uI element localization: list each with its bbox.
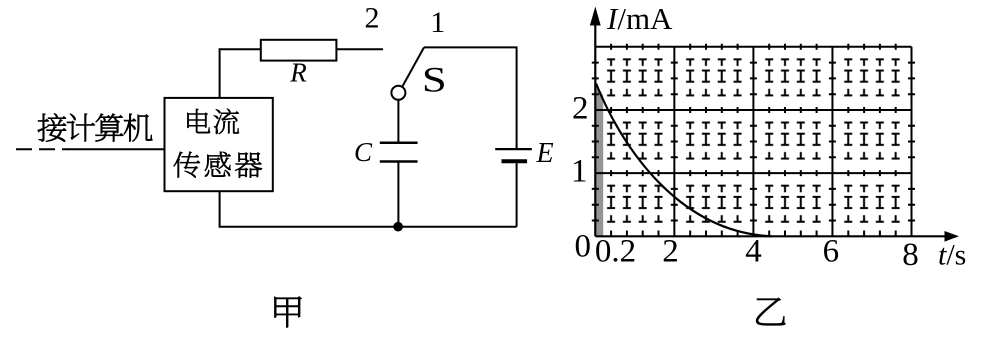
wire: battery to bottom rail bbox=[516, 163, 518, 227]
svg-text:2: 2 bbox=[365, 2, 380, 35]
svg-text:4: 4 bbox=[745, 233, 762, 269]
sensor box 电流传感器 bbox=[165, 98, 273, 191]
svg-text:I/mA: I/mA bbox=[606, 1, 673, 36]
grid minor ticks on major horizontal lines bbox=[611, 44, 896, 237]
wire: dashed lead to computer bbox=[16, 148, 68, 150]
label 乙 (figure b) bbox=[756, 298, 785, 325]
label 传感器 (sensor) bbox=[174, 152, 262, 178]
x axis bbox=[595, 235, 946, 237]
x axis arrowhead bbox=[945, 231, 960, 242]
shaded strip 0 to 0.2 s under curve bbox=[596, 85, 603, 237]
svg-text:6: 6 bbox=[823, 233, 840, 269]
svg-text:t/s: t/s bbox=[938, 239, 966, 272]
junction node dot bbox=[393, 222, 403, 232]
wire: switch to capacitor top plate bbox=[397, 99, 399, 143]
svg-text:1: 1 bbox=[430, 6, 445, 39]
label 甲 (figure a) bbox=[275, 297, 302, 328]
wire: sensor top to resistor bbox=[220, 49, 261, 98]
battery E short thick plate bbox=[502, 159, 528, 163]
wire: lead into sensor box bbox=[67, 148, 165, 150]
svg-text:E: E bbox=[536, 138, 554, 169]
svg-text:8: 8 bbox=[902, 237, 919, 273]
label S bbox=[422, 59, 447, 99]
y axis bbox=[594, 24, 596, 236]
svg-text:C: C bbox=[354, 137, 373, 167]
wire: capacitor bottom plate to junction bbox=[397, 162, 399, 227]
wire: bottom rail bbox=[220, 191, 517, 227]
switch S pivot circle bbox=[391, 86, 405, 100]
label 电流 (current) bbox=[187, 109, 239, 134]
grid minor ticks on major vertical lines bbox=[592, 63, 915, 221]
svg-text:S: S bbox=[422, 59, 447, 99]
discharge current curve bbox=[596, 84, 772, 237]
grid major lines bbox=[595, 47, 911, 237]
svg-text:0.2: 0.2 bbox=[595, 233, 636, 269]
grid minor texture fill bbox=[595, 47, 911, 237]
wire: contact 1 to battery top bbox=[424, 47, 517, 148]
battery E long plate bbox=[495, 148, 532, 150]
svg-text:R: R bbox=[289, 57, 307, 87]
svg-text:1: 1 bbox=[571, 154, 588, 190]
switch S blade bbox=[402, 47, 424, 86]
label 接计算机 (connect to computer) bbox=[38, 113, 153, 141]
resistor R bbox=[261, 40, 337, 61]
svg-text:2: 2 bbox=[662, 233, 679, 269]
svg-text:2: 2 bbox=[572, 91, 589, 127]
y axis arrowhead bbox=[590, 7, 601, 26]
wire: resistor to switch contact 2 bbox=[336, 48, 383, 50]
capacitor C plates bbox=[380, 143, 418, 162]
svg-text:0: 0 bbox=[575, 229, 592, 265]
